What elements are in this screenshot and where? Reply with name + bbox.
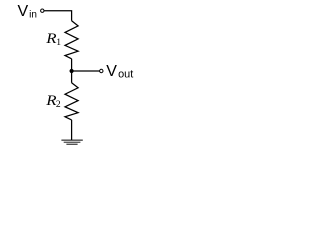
svg-text:in: in bbox=[29, 9, 37, 20]
wire R1 to node bbox=[71, 59, 73, 71]
wire Vin to top corner bbox=[44, 11, 71, 21]
svg-text:V: V bbox=[18, 3, 29, 20]
wire node to Vout bbox=[72, 70, 100, 72]
terminal Vout bbox=[100, 69, 103, 72]
wire R2 to ground bbox=[71, 120, 73, 140]
svg-text:2: 2 bbox=[56, 99, 61, 110]
terminal Vin bbox=[41, 9, 44, 12]
svg-text:V: V bbox=[106, 63, 117, 80]
resistor R1 bbox=[65, 21, 78, 59]
wire node to R2 bbox=[71, 71, 73, 83]
svg-text:out: out bbox=[118, 69, 133, 81]
svg-text:R: R bbox=[45, 31, 57, 47]
resistor R2 bbox=[65, 83, 78, 120]
ground bbox=[61, 139, 82, 141]
node junction dot bbox=[70, 69, 74, 73]
svg-text:1: 1 bbox=[56, 37, 61, 48]
